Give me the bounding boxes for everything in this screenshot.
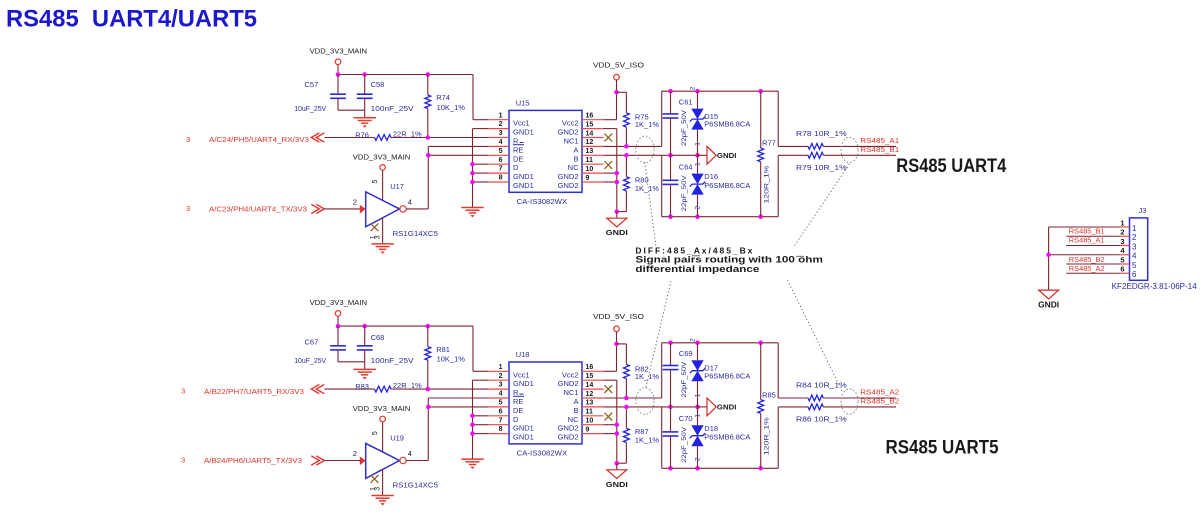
svg-text:C57: C57	[305, 80, 319, 89]
no-connect X U19 pin1	[371, 475, 379, 483]
wire J3 pin6 RS485_A2	[1066, 272, 1119, 274]
ground (U15 GND1)	[461, 459, 483, 469]
resistor R85 120R_1%	[758, 343, 776, 469]
svg-text:NC1: NC1	[563, 137, 578, 146]
svg-text:10uF_25V: 10uF_25V	[294, 104, 326, 113]
wire GND1 column	[473, 129, 489, 208]
wire net B out	[778, 407, 808, 468]
power symbol VDD_3V3_MAIN (C67 rail)	[310, 298, 368, 326]
wire cap bottoms	[338, 109, 365, 111]
wire buffer out to RE/DE	[406, 146, 488, 209]
junction GND1 p7	[470, 422, 475, 427]
svg-text:10K_1%: 10K_1%	[437, 103, 466, 112]
svg-text:GND2: GND2	[558, 181, 579, 190]
svg-text:RS485 UART4: RS485 UART4	[896, 156, 1006, 177]
svg-text:3: 3	[1120, 237, 1124, 246]
svg-text:R74: R74	[436, 93, 450, 102]
resistor R75 1K_1% (A pull-up)	[617, 92, 660, 146]
svg-text:R86 10R_1%: R86 10R_1%	[796, 414, 847, 423]
svg-text:9: 9	[586, 175, 590, 182]
ground GNDI (J3)	[1038, 290, 1059, 310]
svg-text:RS485_B1: RS485_B1	[1069, 226, 1105, 235]
svg-text:A: A	[573, 145, 578, 154]
svg-text:A/B22/PH7/UART5_RX/3V3: A/B22/PH7/UART5_RX/3V3	[204, 387, 304, 396]
wire TVS top rail	[662, 90, 779, 92]
TVS diode D15 P6SMB6.8CA	[690, 86, 751, 155]
resistor R84 10R_1%	[796, 381, 847, 401]
svg-text:GND1: GND1	[513, 433, 534, 442]
svg-text:CA-IS3082WX: CA-IS3082WX	[517, 197, 568, 206]
svg-text:GND2: GND2	[558, 433, 579, 442]
svg-text:13: 13	[586, 400, 594, 407]
leader bottom-right oval	[788, 280, 843, 391]
svg-text:5: 5	[1132, 261, 1137, 270]
net label RS485_B2	[860, 397, 899, 406]
svg-text:NC: NC	[568, 415, 579, 424]
no-connect X U18 pin14	[604, 385, 612, 393]
svg-text:2: 2	[353, 449, 357, 458]
diff pair marker oval (left)	[636, 136, 654, 163]
svg-text:4: 4	[1132, 252, 1137, 261]
ground flag GNDI (TVS mid)	[698, 146, 737, 164]
svg-text:3: 3	[181, 387, 185, 396]
connector J3 KF2EDGR-3.81-06P-14	[1112, 206, 1198, 291]
wire J3 pin3 RS485_A1	[1066, 245, 1119, 247]
junction rail/R74	[426, 324, 431, 329]
capacitor C58	[357, 75, 414, 114]
resistor R83 22R_1%	[355, 381, 422, 392]
svg-text:RS485_A2: RS485_A2	[1069, 264, 1105, 273]
wire net A	[604, 91, 662, 146]
svg-text:4: 4	[499, 139, 503, 146]
svg-text:16: 16	[586, 113, 594, 120]
svg-text:3: 3	[186, 204, 190, 213]
svg-text:D: D	[513, 163, 519, 172]
svg-text:3: 3	[499, 382, 503, 389]
junction rail/C58	[362, 72, 367, 77]
svg-text:GNDI: GNDI	[606, 228, 628, 237]
svg-text:CA-IS3082WX: CA-IS3082WX	[517, 449, 568, 458]
svg-text:Vcc1: Vcc1	[513, 119, 530, 128]
svg-text:15: 15	[586, 121, 594, 128]
svg-text:100nF_25V: 100nF_25V	[371, 356, 414, 365]
ground (caps)	[354, 362, 376, 380]
svg-text:VDD_5V_ISO: VDD_5V_ISO	[593, 312, 644, 321]
svg-text:120R_1%: 120R_1%	[764, 165, 771, 204]
svg-text:P6SMB6.8CA: P6SMB6.8CA	[704, 181, 750, 190]
junction GND2 bottom	[615, 461, 620, 466]
svg-text:3: 3	[375, 487, 382, 491]
svg-text:RS485 UART5: RS485 UART5	[886, 438, 999, 459]
svg-text:7: 7	[499, 417, 503, 424]
svg-text:GND1: GND1	[513, 172, 534, 181]
svg-text:1: 1	[694, 393, 701, 397]
svg-text:5: 5	[499, 400, 503, 407]
svg-text:2: 2	[499, 373, 503, 380]
leader bottom-left oval	[646, 281, 671, 389]
svg-text:10: 10	[586, 166, 594, 173]
svg-text:VDD_3V3_MAIN: VDD_3V3_MAIN	[310, 298, 368, 307]
svg-text:KF2EDGR-3.81-06P-14: KF2EDGR-3.81-06P-14	[1112, 282, 1198, 291]
net label A/B24/PH6/UART5_TX/3V3	[181, 456, 324, 465]
wire J3 pin2 RS485_B1	[1066, 235, 1119, 237]
svg-text:1: 1	[499, 112, 503, 119]
wire cap bottoms	[338, 361, 365, 363]
svg-text:3: 3	[375, 235, 382, 239]
ground (U15 GND1)	[461, 208, 483, 218]
junction bot/C64	[668, 466, 673, 471]
wire rail to pin1 Vcc1	[473, 75, 489, 120]
power symbol VDD_5V_ISO	[593, 61, 644, 93]
junction B/D15	[695, 405, 700, 410]
svg-text:C58: C58	[371, 80, 385, 89]
svg-text:15: 15	[586, 373, 594, 380]
svg-text:22pF_50V: 22pF_50V	[681, 174, 688, 211]
svg-text:1: 1	[694, 162, 701, 166]
svg-text:1: 1	[1120, 218, 1124, 227]
wire TVS bottom rail	[662, 155, 779, 216]
buffer U19 RS1G14XC5	[353, 431, 438, 491]
net label RS485_A2	[860, 387, 899, 396]
wire GND2 column	[604, 129, 627, 212]
net label RS485_B1	[860, 145, 899, 154]
wire net B out	[778, 155, 808, 216]
svg-text:1: 1	[694, 414, 701, 418]
wire RX left	[324, 388, 374, 390]
junction A/R75	[624, 144, 629, 149]
net label A/C24/PH5/UART4_RX/3V3	[186, 133, 324, 144]
svg-text:10: 10	[586, 418, 594, 425]
svg-text:6: 6	[499, 157, 503, 164]
svg-text:9: 9	[586, 426, 590, 433]
junction GND1 p8	[470, 431, 475, 436]
svg-text:3: 3	[499, 130, 503, 137]
resistor R77 120R_1%	[758, 91, 776, 217]
svg-text:P6SMB6.8CA: P6SMB6.8CA	[704, 120, 750, 129]
wire buffer out to RE/DE	[406, 398, 488, 461]
svg-text:D16: D16	[704, 172, 718, 181]
resistor R76 22R_1%	[355, 130, 422, 141]
junction DE	[426, 405, 431, 410]
svg-text:22pF_50V: 22pF_50V	[681, 426, 688, 463]
wire to RS485_A2	[823, 397, 896, 399]
resistor R78 10R_1%	[796, 129, 847, 149]
leader top-right oval	[794, 164, 850, 256]
svg-text:GND2: GND2	[558, 128, 579, 137]
wire 3V3 rail	[338, 325, 473, 327]
wire TVS top rail	[662, 342, 779, 344]
resistor R86 10R_1%	[796, 404, 847, 423]
svg-text:8: 8	[499, 175, 503, 182]
svg-text:6: 6	[1132, 270, 1137, 279]
wire net A out	[778, 91, 808, 146]
net label RS485_B1 (J3)	[1069, 226, 1105, 235]
junction GND2 bottom	[615, 209, 620, 214]
svg-text:1K_1%: 1K_1%	[635, 120, 660, 129]
svg-text:A: A	[573, 397, 578, 406]
wire Vcc2 to 5V	[604, 92, 617, 119]
svg-text:GNDI: GNDI	[717, 403, 737, 412]
ground (U19)	[371, 470, 393, 506]
wire RX right to pin3 R	[391, 388, 489, 390]
svg-text:A/C23/PH4/UART4_TX/3V3: A/C23/PH4/UART4_TX/3V3	[209, 204, 307, 213]
svg-text:C67: C67	[305, 338, 319, 347]
junction bot/R77	[758, 466, 763, 471]
svg-text:Vcc2: Vcc2	[562, 370, 579, 379]
net label RS485_A1	[860, 136, 899, 145]
svg-text:P6SMB6.8CA: P6SMB6.8CA	[704, 433, 750, 442]
svg-text:NC: NC	[568, 163, 579, 172]
note DIFF routing	[635, 245, 823, 275]
junction GND1 p8	[470, 180, 475, 185]
svg-text:GNDI: GNDI	[717, 151, 737, 160]
TVS diode D17 P6SMB6.8CA	[690, 338, 751, 407]
junction B/R80	[624, 153, 629, 158]
svg-text:14: 14	[586, 130, 594, 137]
svg-text:120R_1%: 120R_1%	[764, 417, 771, 456]
svg-text:D: D	[513, 415, 519, 424]
svg-text:5: 5	[1120, 255, 1124, 264]
svg-text:GNDI: GNDI	[606, 480, 628, 489]
svg-text:NC1: NC1	[563, 388, 578, 397]
diff pair marker oval (right)	[841, 389, 858, 414]
wire TX	[324, 205, 365, 214]
svg-text:2: 2	[1120, 228, 1124, 237]
junction 5V/R75	[614, 342, 619, 347]
svg-text:16: 16	[586, 364, 594, 371]
junction rail/C58	[362, 324, 367, 329]
svg-text:5: 5	[372, 431, 379, 435]
wire GND2 column	[604, 380, 627, 463]
svg-text:U15: U15	[516, 98, 530, 107]
ground (caps)	[354, 110, 376, 128]
svg-text:RS485_B1: RS485_B1	[860, 145, 899, 154]
svg-text:12: 12	[586, 139, 594, 146]
ground GNDI (isolated side)	[606, 463, 628, 489]
junction B/D15	[695, 153, 700, 158]
svg-text:1K_1%: 1K_1%	[635, 435, 660, 444]
svg-text:GND1: GND1	[513, 379, 534, 388]
junction B/R80	[624, 405, 629, 410]
no-connect X U15 pin11	[604, 161, 612, 169]
no-connect X U17 pin1	[371, 223, 379, 231]
svg-text:1: 1	[1132, 224, 1137, 233]
label RS485 UART4	[896, 156, 1006, 177]
wire to RS485_B1	[823, 154, 896, 156]
svg-text:2: 2	[353, 197, 357, 206]
svg-text:R85: R85	[762, 390, 776, 399]
junction top/D15	[695, 341, 700, 346]
resistor R79 10R_1%	[796, 152, 847, 171]
svg-text:RS485 UART4/UART5: RS485 UART4/UART5	[6, 6, 257, 33]
svg-text:1: 1	[499, 364, 503, 371]
junction bot/C64	[668, 214, 673, 219]
capacitor C69 22pF_50V	[663, 343, 693, 407]
wire TVS bottom rail	[662, 407, 779, 468]
wire J3 pin5 RS485_B2	[1066, 263, 1119, 265]
wire net A out	[778, 343, 808, 398]
junction top/D15	[695, 89, 700, 94]
net label RS485_B2 (J3)	[1069, 255, 1105, 264]
ground GNDI (isolated side)	[606, 212, 628, 238]
svg-text:C69: C69	[679, 349, 693, 358]
svg-text:U17: U17	[390, 182, 404, 191]
svg-text:VDD_3V3_MAIN: VDD_3V3_MAIN	[310, 47, 368, 56]
svg-text:R79 10R_1%: R79 10R_1%	[796, 163, 847, 172]
svg-text:RE: RE	[513, 397, 523, 406]
svg-text:B: B	[573, 154, 578, 163]
wire RX right to pin3 R	[391, 137, 489, 139]
svg-text:3: 3	[1132, 242, 1137, 251]
svg-text:5: 5	[499, 148, 503, 155]
junction bot/D16	[695, 214, 700, 219]
junction top/R77	[758, 341, 763, 346]
svg-text:2: 2	[690, 86, 697, 90]
junction GND2 p9	[615, 180, 620, 185]
resistor R74 10K_1%	[425, 75, 465, 138]
svg-text:GND1: GND1	[513, 181, 534, 190]
junction DE	[426, 153, 431, 158]
buffer U17 RS1G14XC5	[353, 180, 438, 240]
capacitor C68	[357, 326, 414, 365]
junction rail/C57	[336, 324, 341, 329]
net label RS485_A2 (J3)	[1069, 264, 1105, 273]
svg-text:12: 12	[586, 391, 594, 398]
wire net A	[604, 343, 662, 398]
svg-text:R76: R76	[355, 131, 369, 140]
svg-text:RS1G14XC5: RS1G14XC5	[393, 229, 439, 238]
wire J3 pin1 GNDI	[1049, 227, 1120, 290]
power symbol VDD_3V3_MAIN (C57 rail)	[310, 47, 368, 75]
resistor R82 1K_1% (A pull-up)	[617, 344, 660, 398]
title RS485 UART4/UART5	[6, 6, 257, 33]
leader top-left oval	[645, 162, 700, 256]
svg-text:R84 10R_1%: R84 10R_1%	[796, 381, 847, 390]
capacitor C64 22pF_50V	[663, 155, 693, 216]
svg-text:J3: J3	[1139, 206, 1147, 215]
junction GND1 D	[470, 162, 475, 167]
svg-text:B: B	[573, 406, 578, 415]
svg-text:Vcc1: Vcc1	[513, 370, 530, 379]
junction 5V/R75	[614, 90, 619, 95]
svg-text:C61: C61	[679, 97, 693, 106]
svg-text:100nF_25V: 100nF_25V	[371, 104, 414, 113]
svg-text:GND1: GND1	[513, 424, 534, 433]
svg-text:10uF_25V: 10uF_25V	[294, 356, 326, 365]
svg-text:4: 4	[408, 197, 412, 206]
junction GND2 p10	[615, 422, 620, 427]
svg-text:VDD_3V3_MAIN: VDD_3V3_MAIN	[353, 404, 411, 413]
svg-text:2: 2	[694, 205, 701, 209]
net label A/B22/PH7/UART5_RX/3V3	[181, 385, 324, 396]
svg-text:D18: D18	[704, 424, 718, 433]
resistor R80 1K_1% (B pull-down)	[624, 155, 660, 211]
svg-text:4: 4	[499, 391, 503, 398]
svg-text:8: 8	[499, 426, 503, 433]
svg-text:C64: C64	[679, 162, 693, 171]
svg-text:22pF_50V: 22pF_50V	[681, 361, 688, 398]
junction B/C61	[668, 153, 673, 158]
svg-text:U19: U19	[390, 434, 404, 443]
svg-text:1: 1	[694, 142, 701, 146]
svg-text:VDD_3V3_MAIN: VDD_3V3_MAIN	[353, 152, 411, 161]
svg-text:RS485_B2: RS485_B2	[860, 397, 899, 406]
junction A/R75	[624, 396, 629, 401]
svg-text:3: 3	[186, 135, 190, 144]
svg-text:GND1: GND1	[513, 128, 534, 137]
svg-text:R: R	[513, 137, 519, 146]
diff pair marker oval (left)	[636, 388, 654, 415]
wire to RS485_B2	[823, 406, 896, 408]
svg-text:5: 5	[372, 180, 379, 184]
svg-text:14: 14	[586, 382, 594, 389]
junction top/C61	[668, 89, 673, 94]
junction GND2 p9	[615, 431, 620, 436]
svg-text:2: 2	[499, 121, 503, 128]
svg-text:4: 4	[408, 449, 412, 458]
svg-text:differential impedance: differential impedance	[635, 264, 759, 275]
svg-text:GND2: GND2	[558, 424, 579, 433]
svg-text:11: 11	[586, 409, 594, 416]
no-connect X U15 pin14	[604, 134, 612, 142]
svg-text:RS485_A2: RS485_A2	[860, 387, 899, 396]
power symbol VDD_3V3_MAIN (U19)	[353, 404, 411, 452]
svg-text:R: R	[513, 388, 519, 397]
svg-text:R83: R83	[355, 382, 369, 391]
wire to RS485_A1	[823, 145, 896, 147]
junction J3 GNDI	[1046, 252, 1051, 257]
capacitor C67	[294, 326, 346, 365]
net label RS485_A1 (J3)	[1069, 236, 1105, 245]
ground (U17)	[371, 218, 393, 254]
junction GND2 p10	[615, 171, 620, 176]
junction top/R77	[758, 89, 763, 94]
junction RX/R74	[426, 387, 431, 392]
capacitor C70 22pF_50V	[663, 407, 693, 468]
wire net B	[604, 154, 698, 156]
svg-text:A/C24/PH5/UART4_RX/3V3: A/C24/PH5/UART4_RX/3V3	[209, 135, 309, 144]
junction GND1 D	[470, 414, 475, 419]
svg-text:R81: R81	[436, 345, 450, 354]
svg-text:A/B24/PH6/UART5_TX/3V3: A/B24/PH6/UART5_TX/3V3	[204, 456, 302, 465]
svg-text:10K_1%: 10K_1%	[437, 355, 466, 364]
svg-text:2: 2	[1132, 233, 1137, 242]
junction rail/C57	[336, 72, 341, 77]
svg-text:GND2: GND2	[558, 172, 579, 181]
svg-text:DE: DE	[513, 154, 523, 163]
junction GND1 p7	[470, 171, 475, 176]
junction bot/D16	[695, 466, 700, 471]
net label A/C23/PH4/UART4_TX/3V3	[186, 204, 324, 213]
IC U18 CA-IS3082WX	[489, 350, 604, 458]
junction RX/R74	[426, 135, 431, 140]
svg-text:1K_1%: 1K_1%	[635, 372, 660, 381]
wire RX left	[324, 137, 374, 139]
junction rail/R74	[426, 72, 431, 77]
TVS diode D18 P6SMB6.8CA	[690, 407, 751, 468]
ground flag GNDI (TVS mid)	[698, 398, 737, 416]
svg-text:Vcc2: Vcc2	[562, 119, 579, 128]
wire GND1 column	[473, 380, 489, 459]
svg-text:3: 3	[181, 456, 185, 465]
svg-text:C70: C70	[679, 414, 693, 423]
power symbol VDD_5V_ISO	[593, 312, 644, 344]
svg-text:RS485_A1: RS485_A1	[860, 136, 899, 145]
wire rail to pin1 Vcc1	[473, 326, 489, 371]
capacitor C57	[294, 75, 346, 114]
svg-text:1K_1%: 1K_1%	[635, 184, 660, 193]
svg-text:7: 7	[499, 166, 503, 173]
